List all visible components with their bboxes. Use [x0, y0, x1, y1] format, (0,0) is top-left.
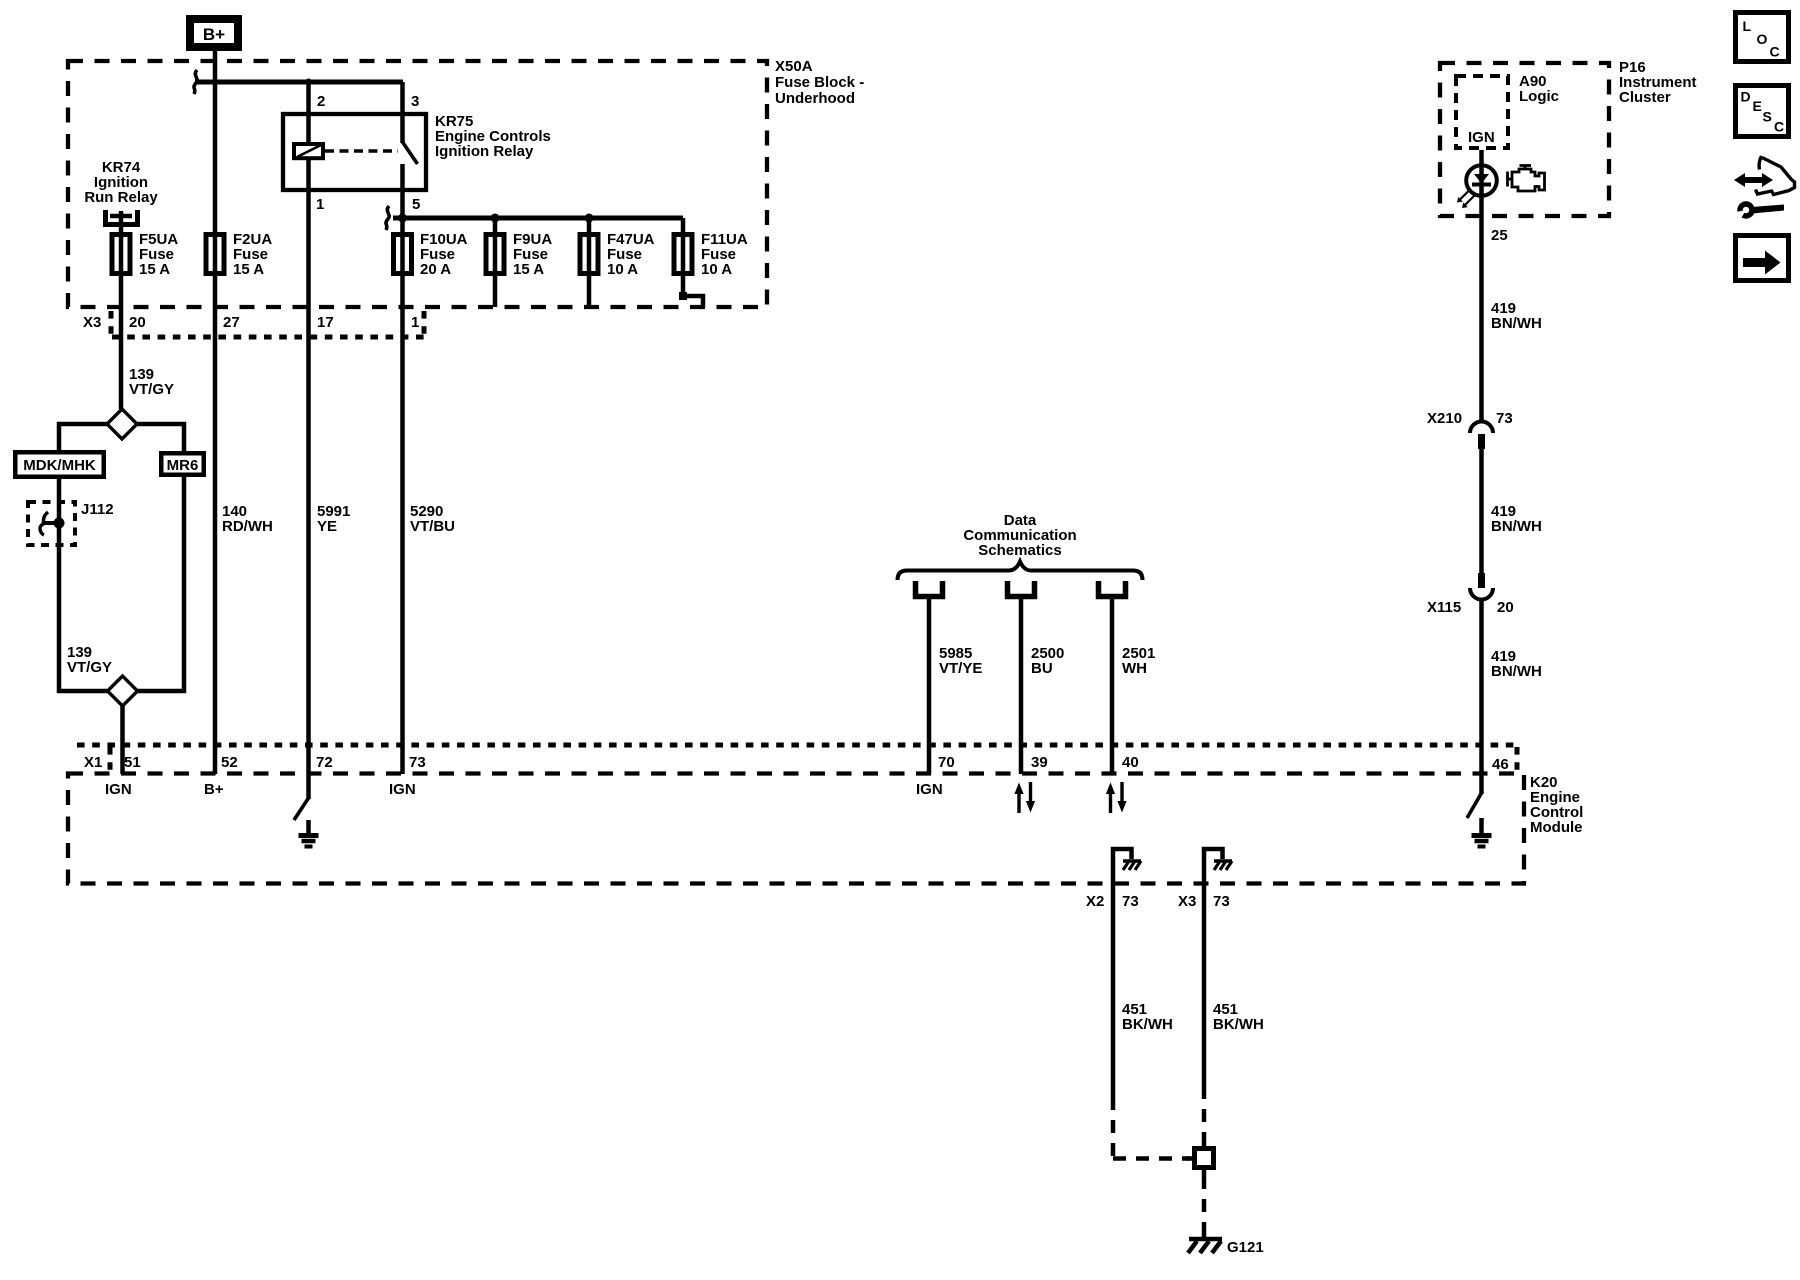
svg-text:20: 20 [1497, 599, 1514, 616]
wire 451 X2 solid [1111, 884, 1116, 1097]
fuse F2UA [206, 235, 224, 274]
A90 Logic dashed box [1456, 76, 1508, 148]
wire 2500 BU [1019, 599, 1024, 774]
svg-text:O: O [1757, 31, 1768, 47]
X115 inline connector [1470, 573, 1493, 600]
svg-text:1: 1 [316, 196, 324, 213]
svg-text:27: 27 [223, 314, 240, 331]
wire MDK/MHK down [59, 479, 107, 691]
svg-text:B+: B+ [204, 781, 224, 798]
svg-text:G121: G121 [1227, 1239, 1264, 1256]
svg-text:17: 17 [317, 314, 334, 331]
B+ power terminal box [190, 19, 238, 47]
svg-text:40: 40 [1122, 754, 1139, 771]
svg-text:Underhood: Underhood [775, 90, 855, 107]
X1 separator right [1515, 747, 1520, 772]
svg-text:51: 51 [124, 754, 141, 771]
svg-text:BU: BU [1031, 660, 1053, 677]
svg-text:J112: J112 [81, 501, 114, 518]
svg-text:3: 3 [411, 93, 419, 110]
svg-text:20 A: 20 A [420, 261, 451, 278]
svg-text:X1: X1 [84, 754, 102, 771]
connector stub 2500 [1008, 581, 1035, 597]
svg-text:BN/WH: BN/WH [1491, 518, 1542, 535]
svg-text:Run Relay: Run Relay [84, 189, 158, 206]
svg-text:BN/WH: BN/WH [1491, 663, 1542, 680]
junction node pin2 branch [305, 79, 312, 86]
wire IGN to LED [1479, 150, 1484, 422]
svg-text:72: 72 [316, 754, 333, 771]
wire MR6 down [137, 477, 184, 691]
svg-text:1: 1 [411, 314, 419, 331]
X2-73 internal ground hook [1113, 849, 1141, 884]
wire relay switch feed pin3 [400, 82, 405, 143]
svg-text:15 A: 15 A [513, 261, 544, 278]
svg-text:39: 39 [1031, 754, 1048, 771]
svg-text:VT/GY: VT/GY [67, 659, 112, 676]
svg-text:15 A: 15 A [233, 261, 264, 278]
wire F11UA down-step [683, 218, 703, 307]
svg-text:25: 25 [1491, 227, 1508, 244]
svg-text:Ignition Relay: Ignition Relay [435, 143, 534, 160]
svg-text:10 A: 10 A [607, 261, 638, 278]
svg-text:BK/WH: BK/WH [1213, 1016, 1264, 1033]
wire 5985 VT/YE [927, 599, 932, 774]
svg-text:X3: X3 [83, 314, 101, 331]
J112 splice dashed box [28, 502, 75, 545]
svg-text:YE: YE [317, 518, 337, 535]
wire to G121 dashed [1202, 1176, 1207, 1231]
P16 Instrument Cluster dashed box [1440, 63, 1609, 216]
X210 inline connector [1470, 422, 1493, 449]
svg-text:X3: X3 [1178, 893, 1196, 910]
wire 451 X3 dashed [1202, 1086, 1207, 1141]
X50A Fuse Block - Underhood dashed box [68, 61, 767, 307]
wire 451 X2 dashed [1113, 1097, 1189, 1159]
svg-text:46: 46 [1492, 756, 1509, 773]
svg-text:X2: X2 [1086, 893, 1104, 910]
pin40 data arrows [1106, 782, 1127, 813]
wire 2501 WH [1110, 599, 1115, 774]
junction node F47UA [585, 214, 594, 223]
svg-text:10 A: 10 A [701, 261, 732, 278]
svg-text:MDK/MHK: MDK/MHK [23, 457, 96, 474]
svg-text:Schematics: Schematics [978, 542, 1061, 559]
svg-text:20: 20 [129, 314, 146, 331]
svg-text:S: S [1763, 109, 1772, 125]
svg-text:Fuse Block -: Fuse Block - [775, 74, 864, 91]
fuse F9UA [486, 235, 504, 274]
svg-text:VT/YE: VT/YE [939, 660, 982, 677]
svg-text:73: 73 [409, 754, 426, 771]
MR6 box [161, 453, 204, 475]
wire bus B+ row [195, 80, 403, 85]
wire diamond left branch [59, 424, 107, 450]
wire 419 lower [1479, 599, 1484, 774]
svg-text:D: D [1741, 89, 1751, 105]
K20 Engine Control Module dashed box [68, 774, 1524, 884]
junction node F9UA [491, 214, 500, 223]
svg-text:X50A: X50A [775, 58, 813, 75]
engine MIL icon [1508, 166, 1545, 192]
svg-text:VT/BU: VT/BU [410, 518, 455, 535]
splice diamond upper [107, 409, 137, 439]
svg-text:B+: B+ [203, 25, 225, 44]
vehicle view icon [1731, 156, 1795, 225]
svg-text:BK/WH: BK/WH [1122, 1016, 1173, 1033]
svg-text:VT/GY: VT/GY [129, 381, 174, 398]
svg-text:X210: X210 [1427, 410, 1462, 427]
wire diamond to X1-51 [120, 706, 125, 774]
MDK/MHK box [15, 452, 104, 477]
wire F9UA down [493, 218, 498, 307]
svg-text:2: 2 [317, 93, 325, 110]
junction node pin5 [398, 214, 407, 223]
MIL LED indicator [1457, 165, 1497, 208]
fuse F11UA [674, 235, 692, 274]
svg-text:RD/WH: RD/WH [222, 518, 273, 535]
KR74 relay contact symbol [106, 210, 138, 225]
wire relay output pin5 (5290 VT/BU column) [400, 164, 405, 774]
svg-text:Cluster: Cluster [1619, 89, 1671, 106]
connector stub 2501 [1099, 581, 1126, 597]
DESC nav box [1736, 86, 1789, 137]
G121 splice box [1186, 1141, 1214, 1176]
fuse F5UA [112, 235, 130, 274]
relay KR75 box [283, 114, 426, 190]
svg-text:WH: WH [1122, 660, 1147, 677]
next arrow nav box [1736, 236, 1789, 281]
wire B+ down (140 RD/WH column) [213, 47, 218, 774]
X1 separator left [108, 747, 113, 772]
pin39 data arrows [1014, 782, 1035, 813]
X3 connector row [111, 311, 424, 338]
connector stub 5985 [916, 581, 943, 597]
wire F47UA down [587, 218, 592, 307]
svg-text:52: 52 [221, 754, 238, 771]
X1 connector dotted line [77, 743, 1517, 748]
svg-text:73: 73 [1496, 410, 1513, 427]
svg-text:C: C [1774, 119, 1784, 135]
svg-text:73: 73 [1122, 893, 1139, 910]
wire diamond right branch [137, 424, 184, 451]
relay actuation dashed link [325, 149, 398, 153]
fuse bus curl [386, 206, 389, 230]
svg-text:MR6: MR6 [167, 457, 199, 474]
svg-text:5: 5 [412, 196, 420, 213]
wire 419 mid [1479, 449, 1484, 573]
relay switch blade [403, 142, 418, 164]
svg-text:Module: Module [1530, 819, 1583, 836]
LOC nav box [1736, 13, 1789, 62]
svg-text:BN/WH: BN/WH [1491, 315, 1542, 332]
J112 splice node [54, 518, 65, 529]
pin72 internal switch to ground [294, 774, 319, 847]
brace [898, 562, 1143, 581]
bus continuation curl [194, 70, 197, 94]
J112 stub curl [43, 521, 59, 525]
svg-text:73: 73 [1213, 893, 1230, 910]
wire 451 X3 solid [1202, 884, 1207, 1086]
X3-73 internal ground hook [1204, 849, 1232, 884]
svg-text:IGN: IGN [1468, 129, 1495, 146]
svg-text:C: C [1770, 44, 1780, 60]
wire relay coil feed (5991 YE column) [306, 82, 311, 774]
svg-text:IGN: IGN [105, 781, 132, 798]
pin46 internal switch to ground [1467, 774, 1492, 847]
svg-text:L: L [1743, 18, 1752, 34]
G121 ground [1188, 1231, 1222, 1253]
svg-text:IGN: IGN [916, 781, 943, 798]
fuse bus row [393, 216, 683, 221]
svg-text:70: 70 [938, 754, 955, 771]
wire KR74 to F5UA (139 VT/GY column) [119, 211, 124, 409]
fuse F10UA [394, 235, 412, 274]
relay coil KR75 [294, 144, 323, 158]
fuse F47UA [580, 235, 598, 274]
svg-text:Logic: Logic [1519, 88, 1559, 105]
splice diamond lower [108, 676, 138, 706]
svg-text:E: E [1753, 98, 1762, 114]
svg-text:IGN: IGN [389, 781, 416, 798]
svg-text:15 A: 15 A [139, 261, 170, 278]
svg-text:X115: X115 [1427, 599, 1461, 616]
